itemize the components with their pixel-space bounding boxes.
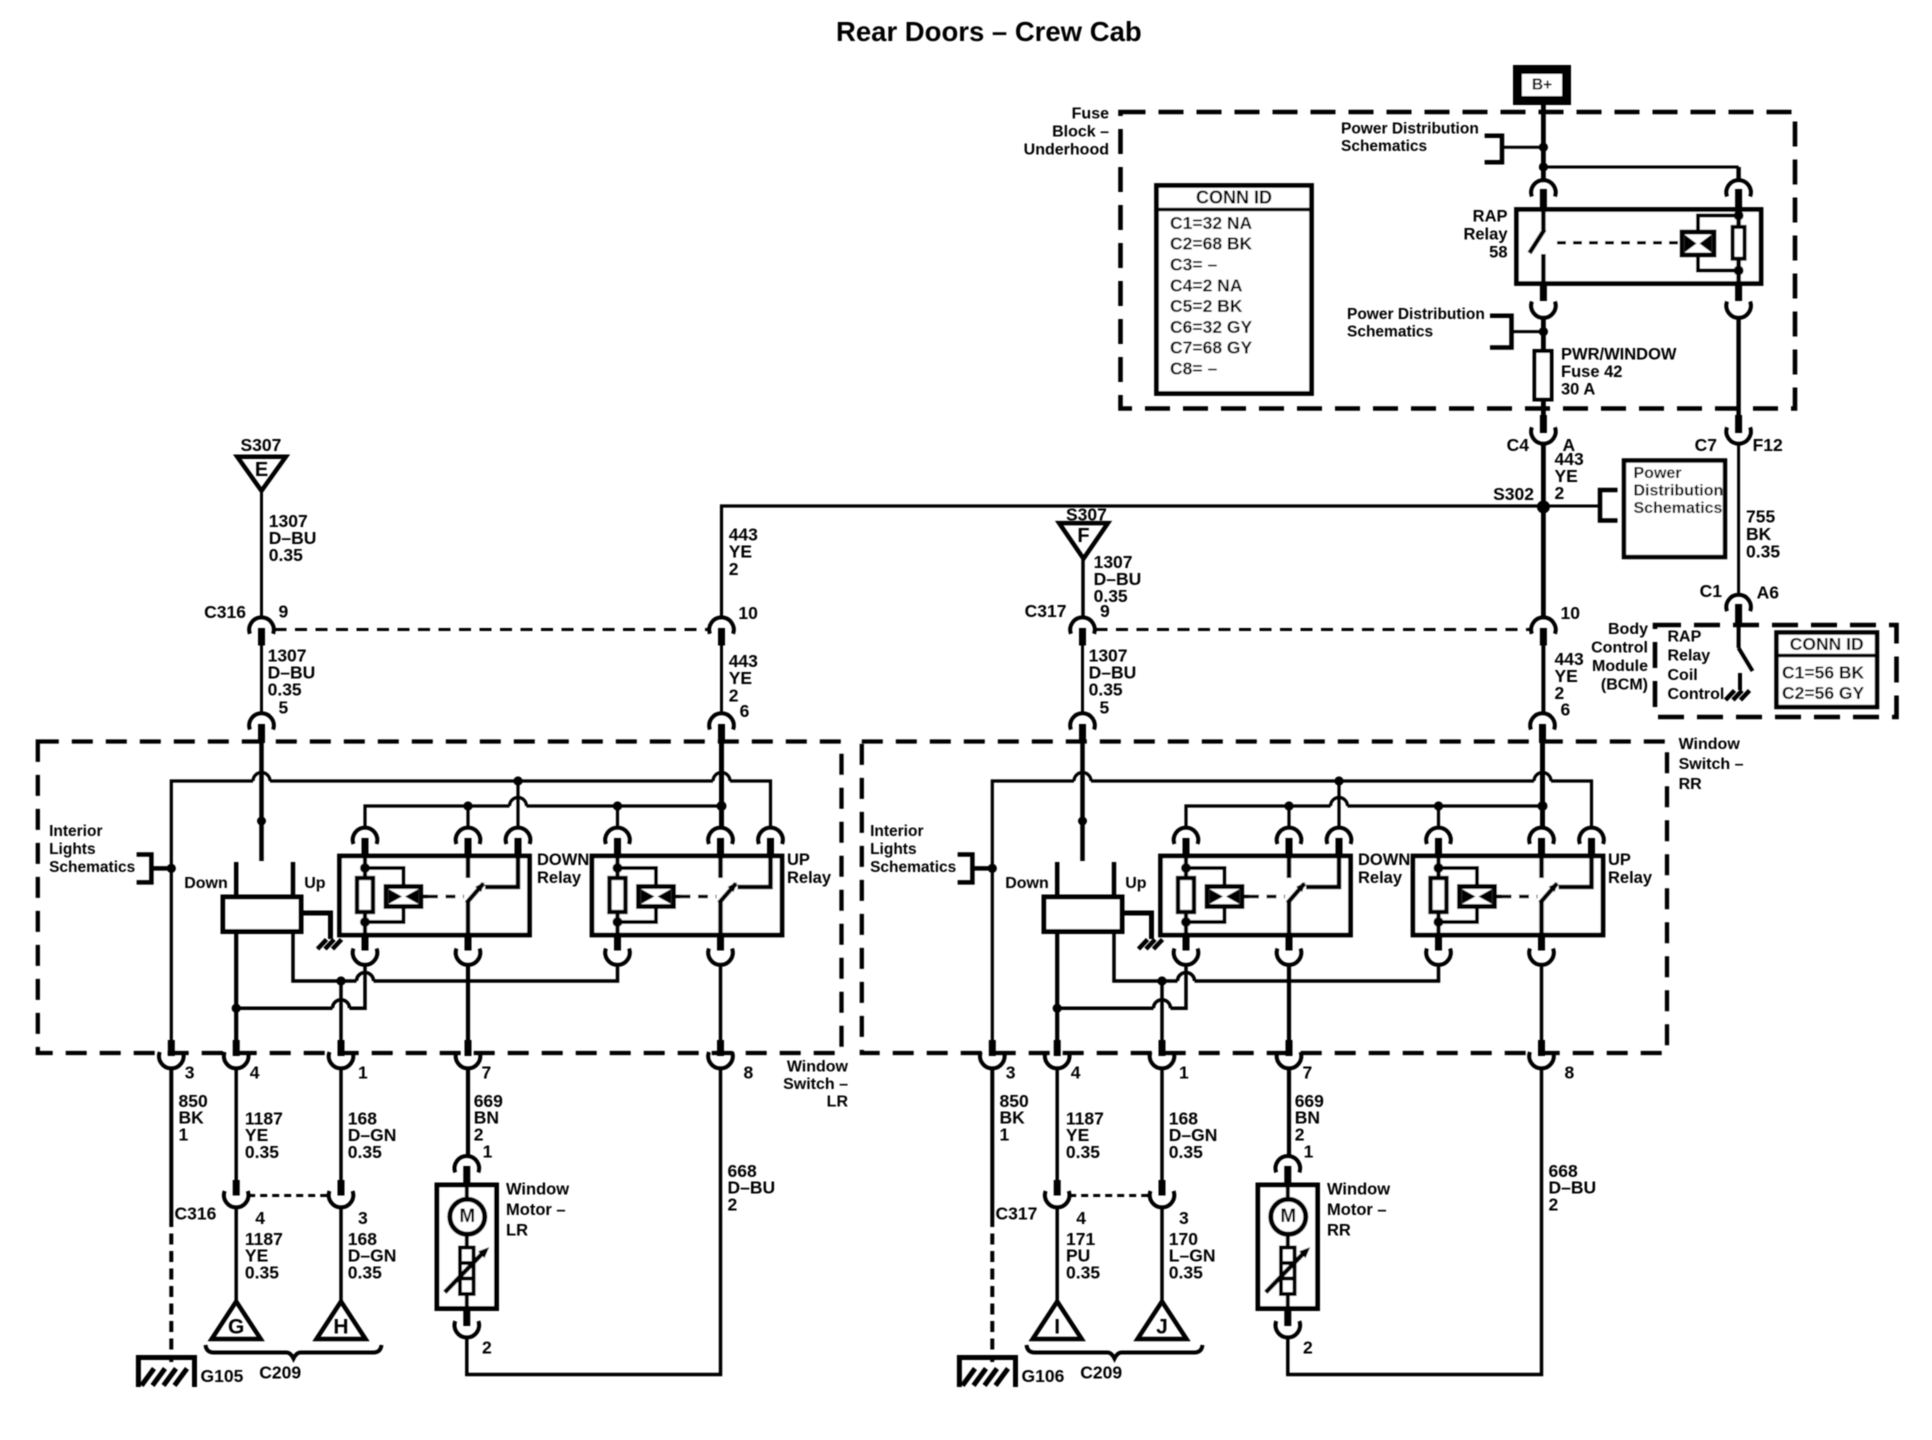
BCM switch blade [1739, 648, 1753, 671]
junction dot bus-2/DOWN switch pin (RR) [1284, 801, 1293, 810]
wire C316 pin 10 to switch pin 6 [720, 646, 723, 715]
connector C1 pin A6 [1726, 595, 1751, 611]
DOWN relay (LR) box [340, 856, 530, 935]
UP relay (LR) fixed contact wire [738, 856, 771, 887]
svg-text:2: 2 [1303, 1337, 1313, 1357]
svg-text:4: 4 [1076, 1208, 1086, 1228]
RAP relay coil bracket bottom [1698, 255, 1739, 271]
body control module dashed box [1655, 625, 1897, 717]
connector C209 brace (RR) [1027, 1345, 1203, 1359]
svg-text:Control: Control [1591, 640, 1648, 657]
DOWN relay (LR) junction dot top [360, 863, 370, 873]
UP relay (RR) resistor wire [1436, 856, 1440, 935]
svg-text:0.35: 0.35 [1066, 1142, 1100, 1162]
svg-text:58: 58 [1489, 244, 1507, 262]
wire pin 5 into down/up switch (LR) [259, 743, 264, 861]
UP relay (LR) junction dot bottom [613, 917, 623, 927]
DOWN relay (LR) top connector (switch pin) [456, 828, 481, 844]
wire C317 pin 9 to switch pin 5 (RR) [1081, 646, 1084, 715]
RAP relay resistor wire [1736, 210, 1741, 284]
window motor LR box [437, 1185, 497, 1309]
DOWN relay (RR) coil bracket top [1186, 868, 1225, 887]
svg-text:7: 7 [1303, 1063, 1313, 1083]
svg-text:2: 2 [729, 685, 739, 705]
junction dot bus-1/DOWN relay feed (LR) [513, 776, 522, 785]
svg-text:Control: Control [1668, 686, 1725, 703]
wire UP relay output to pin 8 (LR) [719, 965, 723, 1041]
wire pin 1 to C316 (LR) [339, 1069, 343, 1182]
connector dashed link (lower, LR) [248, 1194, 330, 1197]
DOWN relay (RR) junction dot top [1181, 863, 1191, 873]
ground G105 [138, 1358, 194, 1388]
window motor LR wire bottom [465, 1294, 469, 1312]
connector pin 8 (LR) [717, 1040, 724, 1056]
svg-text:Body: Body [1608, 621, 1648, 638]
DOWN relay (LR) switch common wire [466, 856, 471, 878]
UP relay (LR) coil (box with X) [639, 887, 674, 907]
svg-text:DOWN: DOWN [1358, 851, 1410, 869]
UP relay (LR) bottom connector (output pin) [717, 934, 724, 951]
wire C4 to S302 [1541, 444, 1546, 506]
wire S302 down to C317 pin 10 [1541, 507, 1546, 619]
svg-text:2: 2 [1549, 1195, 1559, 1215]
wire C7 to C1 (755 BK) [1737, 444, 1740, 596]
UP relay (RR) top connector (contact pin) [1579, 828, 1604, 844]
down/up switch box (LR) [223, 897, 301, 932]
svg-text:Relay: Relay [787, 869, 832, 887]
DOWN relay (RR) coil (box with X) [1207, 887, 1242, 907]
DOWN relay (RR) switch blade [1288, 884, 1305, 904]
down/up switch stubs (RR) [1055, 862, 1060, 897]
DOWN relay (RR) coil dashed actuation line [1249, 895, 1285, 899]
svg-text:C1: C1 [1700, 581, 1723, 601]
svg-text:C316: C316 [175, 1203, 217, 1223]
svg-text:S302: S302 [1493, 484, 1534, 504]
junction dot trunk/PDS [1539, 143, 1548, 152]
svg-text:C316: C316 [204, 602, 246, 622]
wire C316 pin 9 to switch pin 5 [260, 646, 263, 715]
svg-text:F: F [1077, 525, 1089, 547]
UP relay (RR) box [1413, 856, 1603, 935]
connector C209 brace (LR) [206, 1345, 382, 1359]
svg-text:C4=2 NA: C4=2 NA [1170, 275, 1243, 295]
svg-text:S307: S307 [241, 435, 282, 455]
connector window motor RR pin 1 [1276, 1156, 1301, 1172]
svg-text:H: H [333, 1315, 348, 1338]
svg-text:Switch –: Switch – [1679, 756, 1744, 773]
wire trunk to right branch [1543, 166, 1738, 169]
wire to splice H [339, 1208, 343, 1304]
svg-text:Schematics: Schematics [1347, 324, 1433, 341]
UP relay (RR) coil stub [1495, 895, 1502, 899]
UP relay (LR) top connector (coil pin) [605, 828, 630, 844]
window switch RR dashed box [862, 742, 1667, 1054]
svg-text:0.35: 0.35 [245, 1142, 279, 1162]
svg-text:0.35: 0.35 [348, 1142, 382, 1162]
fuse 42 PWR/WINDOW 30A [1535, 351, 1552, 400]
window motor LR wire top [465, 1185, 469, 1199]
svg-text:Interior: Interior [870, 823, 923, 840]
wire down-switch left stub to pin 4 (RR) [1055, 934, 1059, 1042]
UP relay (RR) coil (box with X) [1460, 887, 1495, 907]
wire S302 to reference bracket [1543, 505, 1600, 508]
svg-text:Window: Window [506, 1181, 569, 1199]
DOWN relay (LR) junction dot bottom [360, 917, 370, 927]
UP relay (LR) box [592, 856, 782, 935]
svg-text:Distribution: Distribution [1634, 483, 1724, 500]
svg-text:Relay: Relay [1668, 648, 1711, 665]
svg-text:RR: RR [1327, 1221, 1351, 1239]
connector pin 3 (LR) [168, 1040, 175, 1056]
connector C4 pin A [1540, 415, 1547, 433]
svg-text:C209: C209 [259, 1362, 301, 1382]
svg-text:Up: Up [304, 875, 326, 892]
BCM ground wire [1738, 673, 1742, 690]
svg-text:LR: LR [506, 1221, 528, 1239]
svg-text:Power: Power [1634, 465, 1682, 482]
wire relay to fuse [1541, 318, 1546, 352]
wire to pin 1 (RR) [1160, 981, 1164, 1041]
svg-text:2: 2 [728, 1195, 738, 1215]
UP relay (RR) junction dot bottom [1434, 917, 1444, 927]
svg-text:3: 3 [1006, 1063, 1016, 1083]
wire DOWN relay output to pin 7 (LR) [466, 965, 470, 1041]
DOWN relay (RR) top connector (switch pin) [1277, 828, 1302, 844]
connector C316 pin 4 (lower) [233, 1180, 240, 1196]
svg-text:C2=56 GY: C2=56 GY [1782, 683, 1865, 703]
DOWN relay (RR) top connector (coil pin) [1174, 828, 1199, 844]
svg-text:3: 3 [1179, 1208, 1189, 1228]
UP relay (LR) top connector (contact pin) [758, 828, 783, 844]
svg-text:Window: Window [1679, 736, 1741, 753]
UP relay (RR) resistor [1431, 878, 1447, 912]
wire down-switch left stub to pin 4 (LR) [234, 934, 238, 1042]
svg-text:Lights: Lights [870, 841, 917, 858]
wire bus-1 to DOWN relay contact pin (LR) [516, 781, 519, 830]
svg-text:C7: C7 [1695, 435, 1717, 455]
connector pin 5 into window switch RR [1070, 713, 1095, 729]
DOWN relay (LR) coil dashed actuation line [428, 895, 464, 899]
wire bracket to pin3 wire (RR) [972, 866, 992, 871]
svg-text:0.35: 0.35 [269, 545, 303, 565]
UP relay (RR) top connector (switch pin) [1529, 828, 1554, 844]
connector C317 pin 9 [1070, 617, 1095, 633]
junction dot bus-2/UP coil pin (LR) [613, 801, 622, 810]
fuse block - underhood dashed box [1121, 112, 1796, 409]
svg-text:Power Distribution: Power Distribution [1341, 121, 1479, 138]
svg-text:1: 1 [1179, 1063, 1189, 1083]
junction dot trunk/PDS mid [1539, 327, 1548, 336]
DOWN relay (LR) resistor [357, 878, 373, 912]
wire pin 7 to window motor RR (669 BN) [1287, 1069, 1291, 1158]
window motor RR wire mid [1286, 1234, 1290, 1248]
svg-text:G106: G106 [1022, 1366, 1065, 1386]
UP relay (LR) top connector (switch pin) [708, 828, 733, 844]
connector C316 dashed link [275, 628, 710, 631]
window motor LR rheostat [460, 1248, 474, 1295]
bracket to Power Distribution Schematics box [1600, 490, 1618, 521]
wire pin 6 feed into switch (RR) [1540, 743, 1545, 830]
wire pin 5 into down/up switch (RR) [1080, 743, 1085, 861]
connector below RAP relay (right) [1735, 285, 1742, 301]
svg-text:8: 8 [744, 1063, 754, 1083]
svg-text:B+: B+ [1532, 77, 1552, 94]
DOWN relay (LR) top connector (contact pin) [506, 828, 531, 844]
svg-text:2: 2 [729, 559, 739, 579]
wire to pin 1 (LR) [339, 981, 343, 1041]
svg-text:4: 4 [255, 1208, 265, 1228]
svg-text:1: 1 [179, 1125, 189, 1145]
junction dot down output (LR) [232, 1004, 241, 1013]
UP relay (RR) switch blade [1540, 884, 1557, 904]
connector pin 4 (RR) [1054, 1040, 1061, 1056]
DOWN relay (RR) switch common wire [1287, 856, 1292, 878]
DOWN relay (LR) switch output wire [466, 901, 471, 935]
svg-text:C4: C4 [1507, 435, 1530, 455]
DOWN relay (RR) coil bracket bottom [1186, 907, 1225, 923]
bus wire coil feed (LR) [365, 806, 510, 830]
svg-text:DOWN: DOWN [537, 851, 589, 869]
connector pin 1 (RR) [1159, 1040, 1166, 1056]
svg-text:Relay: Relay [1608, 869, 1653, 887]
svg-text:1: 1 [1000, 1125, 1010, 1145]
junction dot bus-2/DOWN switch pin (LR) [463, 801, 472, 810]
window motor RR rheostat arrow [1266, 1252, 1305, 1292]
svg-text:Relay: Relay [1463, 226, 1508, 244]
bus wire up output to UP coil return (LR) [293, 934, 357, 982]
DOWN relay (LR) coil bracket top [365, 868, 404, 887]
svg-text:I: I [1054, 1315, 1060, 1338]
UP relay (RR) coil dashed actuation line [1502, 895, 1538, 899]
wire DOWN relay output to pin 7 (RR) [1287, 965, 1291, 1041]
svg-text:0.35: 0.35 [1094, 586, 1128, 606]
DOWN relay (LR) switch blade [467, 884, 484, 904]
svg-text:10: 10 [738, 603, 758, 623]
svg-text:C5=2 BK: C5=2 BK [1170, 296, 1243, 316]
bracket interior lights (LR) [137, 855, 152, 883]
svg-text:(BCM): (BCM) [1601, 677, 1648, 694]
junction dot coil bottom [1734, 266, 1744, 276]
switch chassis ground (RR) [1139, 940, 1148, 950]
svg-text:Up: Up [1125, 875, 1147, 892]
svg-text:0.35: 0.35 [245, 1263, 279, 1283]
wire bus-1 to DOWN relay contact pin (RR) [1337, 781, 1340, 830]
svg-text:Module: Module [1592, 658, 1648, 675]
ground G106 [959, 1358, 1015, 1388]
wire bracket to trunk (mid) [1512, 330, 1544, 333]
junction dot bus-2/power feed (LR) [717, 801, 727, 811]
splice I [1033, 1302, 1082, 1340]
UP relay (LR) resistor [610, 878, 626, 912]
svg-text:4: 4 [250, 1063, 260, 1083]
svg-text:9: 9 [1100, 601, 1110, 621]
svg-text:Fuse 42: Fuse 42 [1561, 363, 1622, 381]
connector pin 8 (RR) [1538, 1040, 1545, 1056]
UP relay (LR) switch output wire [718, 901, 723, 935]
splice J [1138, 1302, 1187, 1340]
svg-text:Schematics: Schematics [1341, 138, 1427, 155]
wire relay right to C7 [1736, 318, 1740, 420]
svg-text:Interior: Interior [49, 823, 102, 840]
UP relay (RR) fixed contact wire [1559, 856, 1592, 887]
svg-text:Power Distribution: Power Distribution [1347, 306, 1485, 323]
svg-text:Coil: Coil [1668, 667, 1698, 684]
connector C317 pin 3 (lower) [1159, 1180, 1166, 1196]
UP relay (LR) switch blade [719, 884, 736, 904]
switch ground wire (LR) [301, 913, 331, 939]
DOWN relay (LR) fixed contact wire [485, 856, 518, 887]
svg-text:CONN ID: CONN ID [1196, 187, 1272, 207]
UP relay (LR) junction dot top [613, 863, 623, 873]
DOWN relay (LR) bottom connector (output pin) [465, 934, 472, 951]
svg-text:0.35: 0.35 [1169, 1142, 1203, 1162]
svg-text:C1=56 BK: C1=56 BK [1782, 662, 1865, 682]
junction dot interior lights (RR) [988, 864, 997, 873]
wire S307-F to C317 pin 9 [1081, 559, 1085, 619]
svg-text:M: M [459, 1206, 475, 1227]
svg-text:Schematics: Schematics [1634, 500, 1723, 517]
wire to splice J [1160, 1208, 1164, 1304]
bus wire down output to DOWN coil return (RR) [1057, 1006, 1153, 1010]
DOWN relay (LR) coil (box with X) [386, 887, 421, 907]
svg-text:7: 7 [482, 1063, 492, 1083]
bus wire up output to UP coil return (RR) [1114, 934, 1178, 982]
connector C317 dashed link [1096, 628, 1531, 631]
connector window motor LR pin 1 [455, 1156, 480, 1172]
window motor RR rheostat [1281, 1248, 1295, 1295]
svg-text:Lights: Lights [49, 841, 96, 858]
svg-text:PWR/WINDOW: PWR/WINDOW [1561, 346, 1677, 364]
DOWN relay (RR) junction dot bottom [1181, 917, 1191, 927]
bracket to Power Distribution Schematics (mid) [1490, 316, 1512, 348]
UP relay (RR) coil bracket bottom [1439, 907, 1478, 923]
wire pin 1 to C317 (RR) [1160, 1069, 1164, 1182]
down/up switch box (RR) [1044, 897, 1122, 932]
wire C317 pin 10 to switch pin 6 (RR) [1541, 646, 1545, 715]
RAP relay switch blade [1530, 230, 1545, 254]
window motor RR wire top [1286, 1185, 1290, 1199]
window motor RR box [1258, 1185, 1318, 1309]
wire bracket to pin3 wire (LR) [151, 866, 171, 871]
UP relay (RR) switch common wire [1539, 856, 1544, 878]
power distribution schematics reference box [1624, 461, 1725, 558]
connector C317 pin 10 [1531, 617, 1556, 633]
wire pin 4 to C316 (LR) [234, 1069, 238, 1182]
wire to splice I [1055, 1208, 1059, 1304]
junction dot up-output/pin 1 (LR) [336, 976, 345, 985]
DOWN relay (RR) box [1161, 856, 1351, 935]
connector C316 pin 10 [709, 617, 734, 633]
svg-text:3: 3 [185, 1063, 195, 1083]
junction dot bus-2/UP coil pin (RR) [1434, 801, 1443, 810]
UP relay (LR) resistor wire [615, 856, 619, 935]
UP relay (LR) coil stub [674, 895, 681, 899]
bracket interior lights (RR) [958, 855, 973, 883]
DOWN relay (LR) resistor wire [363, 856, 367, 935]
connector pin 7 (LR) [465, 1040, 472, 1056]
svg-text:Motor –: Motor – [1327, 1201, 1387, 1219]
svg-text:0.35: 0.35 [348, 1263, 382, 1283]
svg-text:30 A: 30 A [1561, 381, 1595, 399]
svg-text:RAP: RAP [1473, 208, 1508, 226]
junction dot bus-1/DOWN relay feed (RR) [1334, 776, 1343, 785]
window motor RR armature (M) [1271, 1199, 1306, 1234]
svg-text:C209: C209 [1080, 1362, 1122, 1382]
svg-text:0.35: 0.35 [1089, 679, 1123, 699]
wire pin 4 to C317 (RR) [1055, 1069, 1059, 1182]
splice dot on pin5 wire (LR) [257, 817, 266, 826]
wire S307-E to C316 pin 9 [260, 491, 263, 619]
connector C316 pin 9 [249, 617, 274, 633]
svg-text:G105: G105 [201, 1366, 244, 1386]
DOWN relay (RR) top connector (contact pin) [1327, 828, 1352, 844]
splice S302 [1537, 500, 1550, 513]
svg-text:2: 2 [1555, 483, 1565, 503]
DOWN relay (RR) resistor [1178, 878, 1194, 912]
DOWN relay (RR) coil stub [1242, 895, 1249, 899]
svg-text:1: 1 [1304, 1141, 1314, 1161]
connector dashed link (lower, RR) [1069, 1194, 1151, 1197]
wire pin 6 feed into switch (LR) [719, 743, 724, 830]
svg-text:10: 10 [1561, 603, 1581, 623]
connector below RAP relay (left) [1540, 285, 1547, 301]
connector window motor RR pin 2 [1284, 1311, 1291, 1326]
svg-text:UP: UP [787, 851, 810, 869]
wire 850 BK to ground (RR) [990, 1069, 994, 1217]
junction dot coil top [1734, 211, 1744, 221]
RAP relay coil (box with X) [1682, 232, 1714, 255]
window motor LR wire mid [465, 1234, 469, 1248]
junction dot down output (RR) [1053, 1004, 1062, 1013]
splice dot on pin5 wire (RR) [1078, 817, 1087, 826]
CONN ID table (fuse block) [1157, 186, 1312, 394]
UP relay (LR) switch common wire [718, 856, 723, 878]
svg-text:G: G [228, 1315, 244, 1338]
wire S302 branch to LR window switch [722, 506, 1544, 619]
svg-text:RR: RR [1679, 776, 1703, 793]
wire B+ to fuse block [1541, 105, 1546, 183]
UP relay (RR) bottom connector (output pin) [1538, 934, 1545, 951]
wire 850 BK to ground (LR) [169, 1069, 173, 1217]
svg-text:Rear Doors – Crew Cab: Rear Doors – Crew Cab [836, 16, 1142, 47]
svg-text:1: 1 [358, 1063, 368, 1083]
svg-text:6: 6 [740, 701, 750, 721]
BCM switch wire [1737, 625, 1741, 648]
DOWN relay (RR) resistor wire [1184, 856, 1188, 935]
UP relay (RR) top connector (coil pin) [1426, 828, 1451, 844]
connector C317 pin 4 (lower) [1054, 1180, 1061, 1196]
svg-text:8: 8 [1565, 1063, 1575, 1083]
junction dot bus-2/power feed (RR) [1538, 801, 1548, 811]
switch chassis ground (LR) [318, 940, 327, 950]
connector into RAP relay (left pin) [1531, 180, 1556, 196]
svg-text:Window: Window [1327, 1181, 1390, 1199]
wire motor RR return to pin 8 [1288, 1069, 1542, 1375]
DOWN relay (RR) fixed contact wire [1306, 856, 1339, 887]
svg-text:LR: LR [827, 1094, 849, 1111]
svg-text:3: 3 [358, 1208, 368, 1228]
svg-text:J: J [1156, 1315, 1168, 1338]
UP relay (LR) coil bracket bottom [618, 907, 657, 923]
CONN ID table (BCM) [1777, 633, 1878, 708]
UP relay (LR) coil dashed actuation line [681, 895, 717, 899]
connector window motor LR pin 2 [463, 1311, 470, 1326]
svg-text:Switch –: Switch – [783, 1076, 848, 1093]
bus wire B+ feed (RR) [992, 781, 1074, 1041]
bus wire B+ feed (LR) [171, 781, 253, 1041]
wire pin 7 to window motor LR (669 BN) [466, 1069, 470, 1158]
BCM chassis ground [1726, 691, 1735, 701]
